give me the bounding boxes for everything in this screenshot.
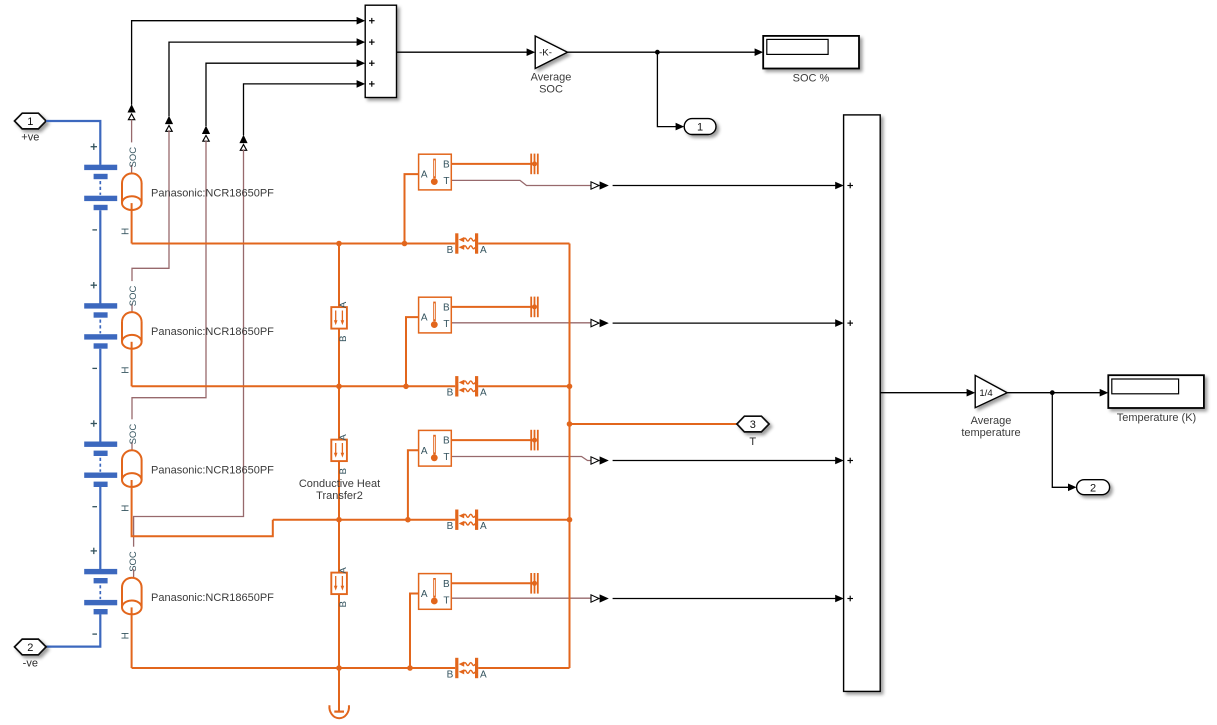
svg-text:B: B (447, 669, 454, 680)
wire SOC physical signal battery 2 (132, 130, 169, 312)
label T sensor 2 (443, 319, 449, 330)
svg-text:SOC: SOC (128, 285, 139, 306)
svg-text:B: B (447, 388, 454, 399)
conductive heat transfer block 3 (331, 573, 347, 595)
label +ve (21, 131, 39, 143)
wire sensor 3 port B to thermal reference (451, 438, 537, 443)
wire thermal tap to port T (570, 423, 738, 425)
conductive heat transfer block 2 (331, 440, 347, 462)
thermal reference mark sensor 2 (531, 297, 538, 318)
wire SOC signal 2 to Add block (169, 38, 365, 116)
svg-text:B: B (338, 336, 349, 342)
plus sign input 2 of Add (369, 39, 375, 45)
svg-text:T: T (443, 319, 449, 330)
battery cell symbol B3 (84, 442, 117, 488)
wire thermal node row 3 left segment (273, 519, 455, 521)
label -ve (23, 657, 38, 669)
battery B3 plus label (91, 420, 97, 426)
wire battery B3 to B4 (99, 487, 101, 569)
sum block Add (SOC) U1 (365, 5, 396, 97)
wire H battery 3 to thermal node row 3 (132, 480, 273, 536)
plus sign input 4 of Add (369, 81, 375, 87)
PS-Simulink converter T 1 (591, 181, 609, 189)
label A convective row 4 (480, 669, 487, 680)
PS-Simulink converter arrow 3 (202, 126, 210, 142)
label SOC port battery 1 (127, 142, 139, 167)
outport 1 (SOC) (684, 119, 716, 135)
wire gain to Temperature display and branch (1007, 389, 1108, 397)
label Panasonic:NCR18650PF 4 (151, 592, 274, 604)
wire thermal to sensor 4 port A (410, 594, 419, 669)
label H port battery 2 (120, 366, 131, 373)
label A convective row 2 (480, 388, 487, 399)
wire SOC physical signal battery 4 (134, 149, 244, 577)
svg-text:SOC: SOC (128, 551, 139, 572)
svg-text:A: A (480, 669, 487, 680)
label Conductive Heat Transfer2 (299, 478, 380, 502)
svg-text:-ve: -ve (23, 657, 38, 669)
label B convective row 3 (447, 521, 454, 532)
thermal reference ground (329, 668, 349, 718)
wire thermal to sensor 2 port A (406, 317, 419, 386)
conductive heat transfer block 1 (331, 307, 347, 329)
label B sensor 3 (443, 436, 450, 447)
inport 2 -ve hexagon (15, 639, 47, 655)
battery B1 plus label (91, 144, 97, 150)
wire branch down to outport 2 (1052, 393, 1076, 491)
svg-text:Transfer2: Transfer2 (316, 490, 363, 502)
label Panasonic:NCR18650PF 3 (151, 464, 274, 476)
svg-text:B: B (443, 160, 450, 171)
svg-text:-K-: -K- (539, 48, 552, 59)
battery block cylinder 2 Panasonic NCR18650PF (122, 312, 142, 349)
svg-text:B: B (338, 601, 349, 607)
svg-text:temperature: temperature (961, 427, 1020, 439)
label T sensor 3 (443, 452, 449, 463)
svg-text:Temperature (K): Temperature (K) (1117, 412, 1196, 424)
gain Average temperature (1/4) (975, 375, 1007, 407)
temperature sensor block 1 (419, 154, 452, 190)
svg-text:2: 2 (27, 642, 33, 654)
svg-text:+ve: +ve (21, 131, 39, 143)
svg-text:T: T (443, 595, 449, 606)
display SOC % (763, 36, 859, 69)
svg-text:Average: Average (971, 415, 1012, 427)
svg-text:A: A (480, 521, 487, 532)
label A sensor 4 (421, 589, 428, 600)
inport 1 +ve hexagon (15, 113, 47, 129)
label B conductive block 2 (338, 468, 349, 474)
wire battery stack to -ve port (46, 614, 100, 646)
svg-text:A: A (338, 567, 349, 574)
svg-text:T: T (443, 452, 449, 463)
wire Add output to Average SOC gain (397, 48, 536, 56)
wire converter 2 to Add1 (613, 319, 844, 327)
label Average SOC (531, 72, 572, 96)
svg-text:Panasonic:NCR18650PF: Panasonic:NCR18650PF (151, 464, 274, 476)
battery block cylinder 3 Panasonic NCR18650PF (122, 450, 142, 487)
svg-text:Panasonic:NCR18650PF: Panasonic:NCR18650PF (151, 592, 274, 604)
svg-text:1/4: 1/4 (979, 388, 993, 399)
label SOC port battery 3 (127, 419, 139, 444)
label B conductive block 1 (338, 336, 349, 342)
svg-text:A: A (421, 313, 428, 324)
svg-text:H: H (120, 366, 131, 373)
wire battery B2 to B3 (99, 349, 101, 442)
wire thermal node row 4 left segment (132, 667, 456, 669)
thermal reference mark sensor 3 (531, 430, 538, 451)
sum block Add1 (temperature) U2 (844, 115, 881, 692)
wire conductive heat transfer column (338, 244, 340, 669)
label SOC % (793, 72, 830, 84)
svg-text:SOC: SOC (128, 147, 139, 168)
battery B3 minus label (92, 506, 97, 508)
wire converter 4 to Add1 (613, 595, 844, 603)
svg-text:H: H (120, 228, 131, 235)
svg-text:B: B (443, 436, 450, 447)
svg-text:B: B (443, 579, 450, 590)
thermal junction dots (336, 241, 572, 671)
PS-Simulink converter T 4 (591, 594, 609, 602)
battery B4 plus label (91, 548, 97, 554)
label SOC port battery 4 (127, 547, 139, 572)
wire thermal to sensor 1 port A (405, 174, 419, 243)
PS-Simulink converter arrow 1 (128, 104, 136, 120)
wire +ve to battery stack (46, 121, 100, 165)
label Panasonic:NCR18650PF 1 (151, 188, 274, 200)
wire sensor 2 port B to thermal reference (451, 304, 537, 309)
svg-text:SOC %: SOC % (793, 72, 830, 84)
battery B1 minus label (92, 229, 97, 231)
wire sensor 4 port B to thermal reference (451, 581, 537, 586)
battery block cylinder 4 Panasonic NCR18650PF (122, 578, 142, 615)
wire gain to SOC display and branch (568, 48, 764, 56)
wire right thermal column (569, 244, 571, 669)
svg-text:H: H (120, 632, 131, 639)
label SOC port battery 2 (127, 281, 139, 306)
wire H battery 1 to thermal node row 1 (131, 203, 133, 243)
svg-text:A: A (338, 434, 349, 441)
plus sign input 2 of Add1 (847, 320, 853, 326)
label A sensor 1 (421, 170, 428, 181)
svg-text:A: A (421, 170, 428, 181)
label A convective row 1 (480, 245, 487, 256)
connection port 3 T hexagon (737, 416, 769, 432)
svg-text:B: B (447, 521, 454, 532)
outport 2 (temperature) (1077, 480, 1110, 495)
svg-text:1: 1 (697, 122, 703, 134)
wire branch down to outport 1 (657, 52, 684, 130)
wire SOC signal 1 to Add block (132, 17, 366, 105)
label B convective row 4 (447, 669, 454, 680)
convective heat transfer block row 2 (455, 376, 478, 396)
wire temperature sensor T 3 (physical signal) (451, 457, 591, 461)
label B convective row 2 (447, 388, 454, 399)
svg-text:A: A (421, 589, 428, 600)
svg-text:B: B (338, 468, 349, 474)
wire Add1 output to Average temperature gain (880, 389, 975, 397)
gain shadow (539, 48, 552, 59)
wire SOC physical signal battery 1 (131, 120, 133, 174)
wire H battery 4 to thermal node row 4 (131, 607, 133, 668)
wire thermal node row 3 right segment (478, 519, 569, 521)
wire battery B1 to B2 (99, 210, 101, 303)
label H port battery 1 (120, 228, 131, 235)
wire thermal node row 2 left segment (132, 385, 456, 387)
PS-Simulink converter arrow 2 (165, 116, 173, 132)
svg-text:A: A (480, 388, 487, 399)
wire sensor 1 port B to thermal reference (451, 161, 537, 166)
PS-Simulink converter T 2 (591, 319, 609, 327)
label T port 3 (749, 436, 756, 448)
convective heat transfer block row 4 (455, 658, 478, 678)
plus sign input 3 of Add1 (847, 458, 853, 464)
battery cell symbol B4 (84, 569, 117, 615)
svg-text:A: A (421, 446, 428, 457)
wire temperature sensor T 1 (physical signal) (451, 180, 591, 185)
label B sensor 2 (443, 303, 450, 314)
battery B2 plus label (91, 282, 97, 288)
label A convective row 3 (480, 521, 487, 532)
svg-text:T: T (749, 436, 756, 448)
thermal reference mark sensor 1 (531, 154, 538, 175)
temperature sensor block 4 (419, 574, 452, 610)
label B sensor 4 (443, 579, 450, 590)
label A conductive block 3 (338, 567, 349, 574)
wire thermal node row 1 left segment (132, 243, 456, 245)
convective heat transfer block row 3 (455, 510, 478, 530)
plus sign input 3 of Add (369, 60, 375, 66)
thermal reference mark sensor 4 (531, 573, 538, 594)
battery B4 minus label (92, 633, 97, 635)
battery B2 minus label (92, 367, 97, 369)
svg-text:2: 2 (1090, 482, 1096, 494)
svg-text:SOC: SOC (539, 83, 563, 95)
plus sign input 1 of Add1 (847, 183, 853, 189)
PS-Simulink converter arrow 4 (239, 135, 247, 151)
svg-text:Conductive Heat: Conductive Heat (299, 478, 380, 490)
svg-text:A: A (338, 301, 349, 308)
gain Average SOC (-K-) (535, 36, 567, 69)
label T sensor 4 (443, 595, 449, 606)
label A sensor 2 (421, 313, 428, 324)
wire converter 1 to Add1 (613, 182, 844, 190)
label Temperature (K) (1117, 412, 1196, 424)
PS-Simulink converter T 3 (591, 456, 609, 464)
svg-text:1: 1 (27, 116, 33, 128)
label A conductive block 2 (338, 434, 349, 441)
wire temperature sensor T 2 (physical signal) (451, 322, 591, 324)
label B sensor 1 (443, 160, 450, 171)
label H port battery 4 (120, 632, 131, 639)
wire thermal node row 4 right segment (478, 667, 569, 669)
label Average temperature (961, 415, 1020, 439)
svg-text:Panasonic:NCR18650PF: Panasonic:NCR18650PF (151, 188, 274, 200)
battery cell symbol B1 (84, 165, 117, 211)
wire SOC signal 4 to Add block (244, 80, 366, 135)
label A sensor 3 (421, 446, 428, 457)
wire thermal to sensor 3 port A (408, 450, 419, 519)
temperature sensor block 3 (419, 430, 452, 466)
battery block cylinder 1 Panasonic NCR18650PF (122, 173, 142, 210)
svg-text:A: A (480, 245, 487, 256)
svg-text:B: B (443, 303, 450, 314)
label A conductive block 1 (338, 301, 349, 308)
convective heat transfer block row 1 (455, 233, 478, 253)
svg-text:H: H (120, 505, 131, 512)
plus sign input 1 of Add (369, 18, 375, 24)
label H port battery 3 (120, 505, 131, 512)
battery cell symbol B2 (84, 303, 117, 348)
wire thermal node row 1 right segment (478, 243, 569, 245)
svg-text:Average: Average (531, 72, 572, 84)
svg-text:SOC: SOC (128, 424, 139, 445)
svg-text:B: B (447, 245, 454, 256)
wire converter 3 to Add1 (613, 457, 844, 465)
wire temperature sensor T 4 (physical signal) (451, 597, 591, 599)
wire SOC signal 3 to Add block (206, 59, 365, 126)
wire SOC physical signal battery 3 (132, 141, 206, 450)
label B conductive block 3 (338, 601, 349, 607)
plus sign input 4 of Add1 (847, 596, 853, 602)
display Temperature (K) (1108, 375, 1204, 408)
label Panasonic:NCR18650PF 2 (151, 326, 274, 338)
temperature sensor block 2 (419, 297, 452, 333)
label T sensor 1 (443, 176, 449, 187)
wire thermal node row 2 right segment (478, 385, 569, 387)
svg-text:T: T (443, 176, 449, 187)
label B convective row 1 (447, 245, 454, 256)
svg-text:3: 3 (750, 419, 756, 431)
svg-text:Panasonic:NCR18650PF: Panasonic:NCR18650PF (151, 326, 274, 338)
wire H battery 2 to thermal node row 2 (131, 342, 133, 387)
